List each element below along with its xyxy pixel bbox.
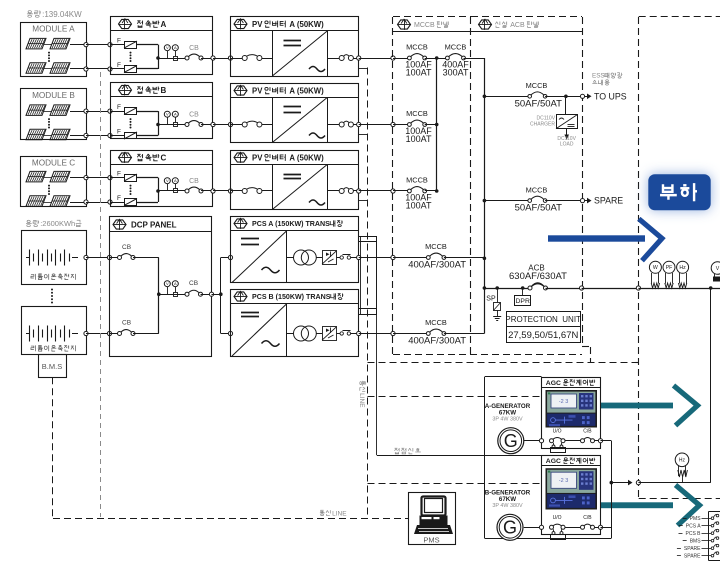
wire generator B to AGC — [524, 527, 542, 529]
svg-text:TO UPS: TO UPS — [594, 91, 627, 101]
svg-text:AGC: AGC — [546, 458, 563, 465]
battery box 2 — [22, 307, 87, 355]
transformer PCS B — [294, 326, 309, 341]
svg-text:PV: PV — [252, 86, 265, 95]
inverter symbol row A — [273, 31, 328, 77]
wire inverter A to MCCB panel — [359, 58, 393, 60]
wire CB to output 접속반A — [201, 58, 213, 60]
svg-text:V: V — [166, 281, 169, 286]
svg-text:DPR: DPR — [516, 298, 530, 305]
logo in 접속반A — [119, 19, 132, 28]
svg-text:SPARE: SPARE — [684, 546, 701, 552]
svg-text:V: V — [716, 266, 720, 272]
svg-text:DCP PANEL: DCP PANEL — [131, 220, 177, 229]
svg-text:PF: PF — [666, 265, 673, 271]
svg-text:B.M.S: B.M.S — [42, 362, 62, 371]
svg-text:BMS: BMS — [690, 539, 702, 545]
solar panel string 1 of MODULE C — [26, 171, 46, 182]
PCS A box — [231, 217, 359, 283]
generator A compartment — [485, 376, 542, 378]
wire inverter B to MCCB panel — [359, 124, 393, 126]
label capacity 2600KWh — [27, 220, 30, 222]
svg-text:MCCB: MCCB — [526, 185, 548, 194]
svg-text:630AF/630AT: 630AF/630AT — [509, 271, 567, 282]
protection unit box — [507, 312, 581, 343]
load label text 부하 — [663, 184, 672, 192]
svg-text:F: F — [117, 128, 121, 135]
AGC control panel box B — [542, 456, 601, 535]
label 접점신호 — [395, 447, 398, 449]
wire battery1 to DCP — [84, 255, 88, 259]
logo PCS B — [234, 292, 247, 301]
breaker ACB 630AF/630AT — [528, 286, 532, 290]
dots between fuses 접속반C — [130, 185, 132, 187]
wire PCS A to MCCB panel — [359, 257, 393, 259]
input contact inverter C — [231, 190, 243, 192]
svg-text:A (50KW): A (50KW) — [288, 86, 325, 95]
comm dashed branch to AGC A — [368, 396, 542, 398]
svg-text:V: V — [166, 45, 169, 50]
svg-text:Hz: Hz — [679, 458, 686, 464]
meter A in DCP — [172, 281, 178, 287]
wire DCP output — [201, 294, 212, 296]
junction MCCB bus row A — [435, 56, 439, 60]
DCP split bus to PCS — [220, 258, 222, 334]
label lithium battery 2 — [31, 346, 34, 349]
svg-text:CB: CB — [122, 320, 131, 327]
meter V in 접속반C — [164, 178, 170, 184]
meter V in 접속반A — [164, 45, 170, 51]
svg-text:CHARGER: CHARGER — [530, 121, 555, 127]
inverter box PV 인버터 C (50KW) — [231, 151, 359, 210]
wire PCS B to MCCB panel — [359, 333, 393, 335]
inverter box PV 인버터 B (50KW) — [231, 84, 359, 143]
svg-text:V: V — [166, 112, 169, 117]
arrow SPARE — [585, 200, 587, 202]
svg-text:PMS: PMS — [423, 536, 439, 545]
thyristor converter PCS A — [316, 257, 322, 259]
comm tab inverter B — [359, 134, 368, 136]
svg-text:CB: CB — [189, 112, 199, 119]
junction charger tap — [564, 95, 568, 99]
svg-text:A (50KW): A (50KW) — [288, 153, 325, 162]
svg-text:F: F — [117, 104, 121, 111]
logo in 접속반B — [119, 85, 132, 94]
logo in inverter A — [234, 19, 247, 28]
wire 접속반C to inverter — [213, 190, 231, 192]
wire generator B output — [595, 527, 601, 529]
input contact inverter B — [231, 124, 243, 126]
svg-text:MCCB: MCCB — [425, 318, 447, 327]
transformer PCS A — [294, 250, 309, 265]
terminal block box — [709, 511, 720, 513]
dots between strings MODULE B — [48, 118, 50, 120]
wire fuse outputs join 접속반C — [110, 177, 124, 179]
PCS aux bus lines — [360, 236, 362, 314]
battery box 1 — [22, 231, 87, 285]
junction box 접속반A — [111, 17, 213, 75]
dots between strings MODULE C — [48, 185, 50, 187]
svg-text:LOAD: LOAD — [560, 142, 574, 148]
contact signal line 접점신호 — [377, 455, 542, 457]
ground symbol SP — [493, 316, 501, 318]
battery symbol 1 — [26, 257, 30, 259]
output contact inverter C — [327, 190, 339, 192]
svg-text:A: A — [174, 112, 177, 117]
wire MODULE C string1 to junction box — [70, 177, 86, 179]
svg-text:U/O: U/O — [553, 429, 562, 435]
dashed line below panels — [368, 362, 639, 364]
svg-text:LINE: LINE — [358, 393, 365, 408]
wire inverter C to MCCB panel — [359, 190, 393, 192]
inverter box PV 인버터 A (50KW) — [231, 17, 359, 77]
meter V in DCP — [164, 281, 170, 287]
svg-text:-2 3: -2 3 — [559, 478, 568, 484]
svg-text:A (50KW): A (50KW) — [288, 20, 325, 29]
meter PF on main bus — [663, 261, 675, 273]
teal arrow generator B — [601, 502, 673, 508]
wire CB to output 접속반B — [201, 124, 213, 126]
svg-text:MCCB: MCCB — [526, 81, 548, 90]
svg-text:PMS: PMS — [690, 516, 702, 522]
panel header line — [393, 31, 582, 33]
svg-text:U/O: U/O — [553, 515, 562, 521]
svg-text:G: G — [503, 518, 517, 538]
logo PCS A — [234, 219, 247, 228]
svg-text:CB: CB — [189, 45, 199, 52]
wire MODULE A string1 to junction box — [70, 44, 86, 46]
PV array box MODULE A — [21, 23, 87, 77]
wire MODULE B string2 to junction box — [70, 135, 86, 137]
title 접속반B — [137, 86, 140, 88]
input contact inverter A — [231, 58, 243, 60]
solar panel string 1 of MODULE B — [26, 105, 46, 116]
meter A in 접속반B — [172, 111, 178, 117]
junction SP tap — [495, 286, 499, 290]
svg-text:PV: PV — [252, 153, 265, 162]
wire to CB 접속반B — [158, 124, 187, 126]
svg-text:F: F — [117, 37, 121, 44]
title 접속반C — [137, 153, 140, 155]
svg-text:SPARE: SPARE — [684, 554, 701, 560]
navy arrow to load — [548, 235, 645, 241]
switch PCS A — [337, 257, 341, 259]
load label box 부하 — [648, 174, 710, 210]
junction box 접속반B — [111, 83, 213, 139]
generator B symbol G — [497, 514, 523, 540]
svg-text:300AT: 300AT — [443, 68, 469, 78]
output contact inverter A — [327, 58, 339, 60]
svg-text:AGC: AGC — [546, 380, 563, 387]
wire to PCS B input — [221, 333, 231, 335]
wire main bus drop right — [710, 288, 712, 483]
svg-text:3P 4W 380V: 3P 4W 380V — [492, 416, 523, 422]
inverter symbol PCS B — [286, 304, 288, 357]
svg-text:50AF/50AT: 50AF/50AT — [515, 203, 563, 214]
relay device generator B — [553, 529, 555, 532]
wire fuse outputs join 접속반B — [110, 111, 124, 113]
label 신설 ACB 판넬 — [495, 22, 496, 25]
DPR relay box — [522, 288, 524, 296]
svg-text:A: A — [161, 20, 167, 29]
logo in inverter C — [234, 153, 247, 162]
logo ACB panel — [479, 20, 492, 29]
generator B compartment — [484, 455, 486, 538]
DC110V charger box — [557, 115, 578, 129]
output contact inverter B — [327, 124, 339, 126]
inverter symbol row B — [273, 98, 328, 143]
wire to DC charger — [565, 96, 567, 114]
svg-text:F: F — [117, 195, 121, 202]
svg-text:MODULE B: MODULE B — [32, 91, 75, 100]
wire to CB 접속반C — [158, 190, 187, 192]
svg-text:PCS B (150KW) TRANS: PCS B (150KW) TRANS — [252, 293, 331, 301]
logo DCP panel — [113, 220, 126, 229]
dots between battery boxes — [51, 289, 53, 291]
dots between fuses 접속반A — [130, 52, 132, 54]
DCP panel box — [110, 217, 212, 357]
title 접속반A — [137, 20, 140, 22]
label 통신LINE vertical — [358, 381, 365, 408]
wire battery2 to DCP — [84, 331, 88, 335]
PMS computer icon — [422, 497, 446, 516]
dots between fuses 접속반B — [130, 118, 132, 120]
wire DCP mid — [159, 294, 187, 296]
comm tab inverter C — [359, 200, 368, 202]
svg-text:A: A — [174, 281, 177, 286]
junction generator feed — [610, 481, 614, 485]
AGC control panel box A — [542, 378, 601, 449]
junction DPR tap — [521, 286, 525, 290]
wire MCCB SPARE to terminal — [545, 200, 582, 202]
junction box 접속반C — [111, 151, 213, 207]
MCCB panel collector bus — [436, 58, 438, 191]
BMS box — [39, 355, 67, 378]
teal arrow generator A — [601, 403, 673, 409]
wire MODULE B string1 to junction box — [70, 111, 86, 113]
solar panel string 2 of MODULE C — [26, 196, 46, 207]
svg-text:A: A — [174, 45, 177, 50]
junction bus PCS A row — [483, 257, 487, 261]
svg-text:SP: SP — [486, 295, 496, 302]
junction MCCB bus row C — [435, 189, 439, 193]
comm tab inverter A — [359, 68, 368, 70]
output terminal PCS A — [351, 257, 359, 259]
dashed enclosure ACB panel — [471, 16, 582, 18]
junction main bus right — [709, 286, 713, 290]
svg-text:400AF/300AT: 400AF/300AT — [408, 336, 466, 347]
svg-text:B: B — [161, 86, 167, 95]
wire generator feed to load box — [611, 482, 628, 484]
wire bus to MCCB UPS — [484, 96, 529, 98]
svg-text:LINE: LINE — [332, 510, 347, 517]
PMS box — [409, 493, 456, 545]
PCS A aux tabs — [359, 236, 377, 238]
meter W on main bus — [649, 261, 661, 273]
svg-text:27,59,50/51,67N: 27,59,50/51,67N — [508, 330, 578, 341]
meter V on main bus — [711, 262, 720, 275]
PCS B box — [231, 290, 359, 357]
output terminal PCS B — [351, 333, 359, 335]
svg-text:ACB: ACB — [509, 22, 527, 29]
svg-text:F: F — [117, 62, 121, 69]
comm dashed branch to AGC B — [368, 483, 542, 485]
logo in 접속반C — [119, 153, 132, 162]
logo in inverter B — [234, 86, 247, 95]
svg-text:G: G — [504, 431, 518, 451]
svg-text:MODULE C: MODULE C — [32, 158, 75, 167]
wire generator A to AGC — [524, 440, 542, 442]
svg-text:MCCB: MCCB — [425, 242, 447, 251]
svg-text:MCCB: MCCB — [406, 42, 428, 51]
solar panel string 2 of MODULE B — [26, 129, 46, 140]
svg-text:MCCB: MCCB — [445, 42, 467, 51]
svg-text:100AT: 100AT — [406, 134, 432, 144]
wire MODULE C string2 to junction box — [70, 202, 86, 204]
meter Hz on main bus — [677, 261, 689, 273]
svg-text:3P 4W 380V: 3P 4W 380V — [492, 503, 523, 509]
thyristor converter PCS B — [316, 333, 322, 335]
svg-text:PCS A: PCS A — [686, 524, 701, 530]
svg-text:CB: CB — [189, 280, 198, 287]
meter A in 접속반C — [172, 178, 178, 184]
svg-text:Hz: Hz — [679, 265, 686, 271]
label 통신LINE horizontal — [321, 510, 324, 512]
dots between strings MODULE A — [48, 52, 50, 54]
wire ACB to load box — [546, 288, 582, 290]
comm dashed line from inverters to PMS — [367, 68, 369, 519]
battery symbol 2 — [26, 333, 30, 335]
ACB panel bus — [484, 58, 486, 334]
svg-text:100AT: 100AT — [406, 201, 432, 211]
label lithium battery 1 — [31, 275, 34, 278]
wire U/O to C/B generator B — [565, 527, 580, 529]
junction bus to UPS row — [483, 95, 487, 99]
svg-text:F: F — [117, 170, 121, 177]
meter V in 접속반B — [164, 111, 170, 117]
arrow to DC110V LOAD — [566, 129, 568, 135]
wire 접속반A to inverter — [213, 58, 231, 60]
comm dashed to PMS horizontal — [53, 518, 409, 520]
meter A in 접속반A — [172, 45, 178, 51]
wire CB to output 접속반C — [201, 190, 213, 192]
svg-text::2600KWh: :2600KWh — [40, 219, 75, 228]
switch PCS B — [337, 333, 341, 335]
wire bus to ACB — [484, 288, 530, 290]
comm dashed from BMS — [52, 377, 54, 518]
svg-text:400AF/300AT: 400AF/300AT — [408, 260, 466, 271]
svg-text:50AF/50AT: 50AF/50AT — [515, 98, 563, 109]
logo MCCB panel — [398, 20, 411, 29]
svg-text:-2 3: -2 3 — [559, 399, 568, 405]
generator A symbol G — [498, 428, 524, 454]
wire bus to MCCB SPARE — [484, 200, 529, 202]
inverter symbol row C — [273, 165, 328, 210]
wire MCCB UPS to terminal — [545, 96, 582, 98]
svg-text:ESS: ESS — [592, 73, 605, 80]
arrow TO UPS — [585, 96, 587, 98]
PV array box MODULE C — [21, 157, 87, 207]
solar panel string 1 of MODULE A — [26, 38, 46, 49]
svg-text:C/B: C/B — [583, 429, 592, 435]
svg-text:MODULE A: MODULE A — [32, 24, 75, 33]
AGC panel photo B — [546, 468, 598, 509]
svg-text:MCCB: MCCB — [406, 109, 428, 118]
svg-text:W: W — [653, 265, 658, 271]
dashed enclosure MCCB panel — [393, 16, 471, 18]
AGC panel photo A — [546, 390, 598, 428]
wire 접속반B to inverter — [213, 124, 231, 126]
junction bus main row — [483, 286, 487, 290]
comm dashed junction boxes line — [100, 72, 102, 517]
svg-text:PCS B: PCS B — [686, 531, 702, 537]
svg-text:A: A — [174, 178, 177, 183]
svg-text:CB: CB — [122, 244, 131, 251]
relay device generator A — [553, 443, 555, 446]
generator output bus — [611, 441, 613, 539]
svg-text::139.04KW: :139.04KW — [42, 10, 82, 19]
svg-text:CB: CB — [189, 178, 199, 185]
PV array box MODULE B — [21, 89, 87, 140]
PCS B aux tabs — [359, 308, 377, 310]
svg-text:PCS A (150KW) TRANS: PCS A (150KW) TRANS — [252, 220, 330, 228]
wire to PCS A input — [221, 257, 231, 259]
wire to CB 접속반A — [158, 58, 187, 60]
meter Wh near generators — [675, 453, 689, 467]
wire MODULE A string2 to junction box — [70, 68, 86, 70]
svg-text:PV: PV — [252, 20, 265, 29]
svg-text:C/B: C/B — [583, 515, 592, 521]
inverter symbol PCS A — [286, 231, 288, 283]
wire U/O to C/B generator A — [565, 440, 580, 442]
svg-text:MCCB: MCCB — [406, 175, 428, 184]
svg-text:C: C — [161, 153, 167, 162]
wire generator A output — [595, 440, 601, 442]
label capacity 139.04KW — [28, 11, 31, 13]
DCP internal bus — [158, 258, 160, 334]
junction bus to SPARE row — [483, 199, 487, 203]
svg-text:100AT: 100AT — [406, 68, 432, 78]
junction MCCB bus row B — [435, 123, 439, 127]
svg-text:PROTECTION UNIT: PROTECTION UNIT — [505, 315, 581, 324]
solar panel string 2 of MODULE A — [26, 63, 46, 74]
wire fuse outputs join 접속반A — [110, 44, 124, 46]
dashed enclosure load box — [639, 16, 720, 18]
svg-text:V: V — [166, 178, 169, 183]
svg-text:SPARE: SPARE — [594, 196, 623, 206]
svg-text:MCCB: MCCB — [414, 22, 437, 29]
